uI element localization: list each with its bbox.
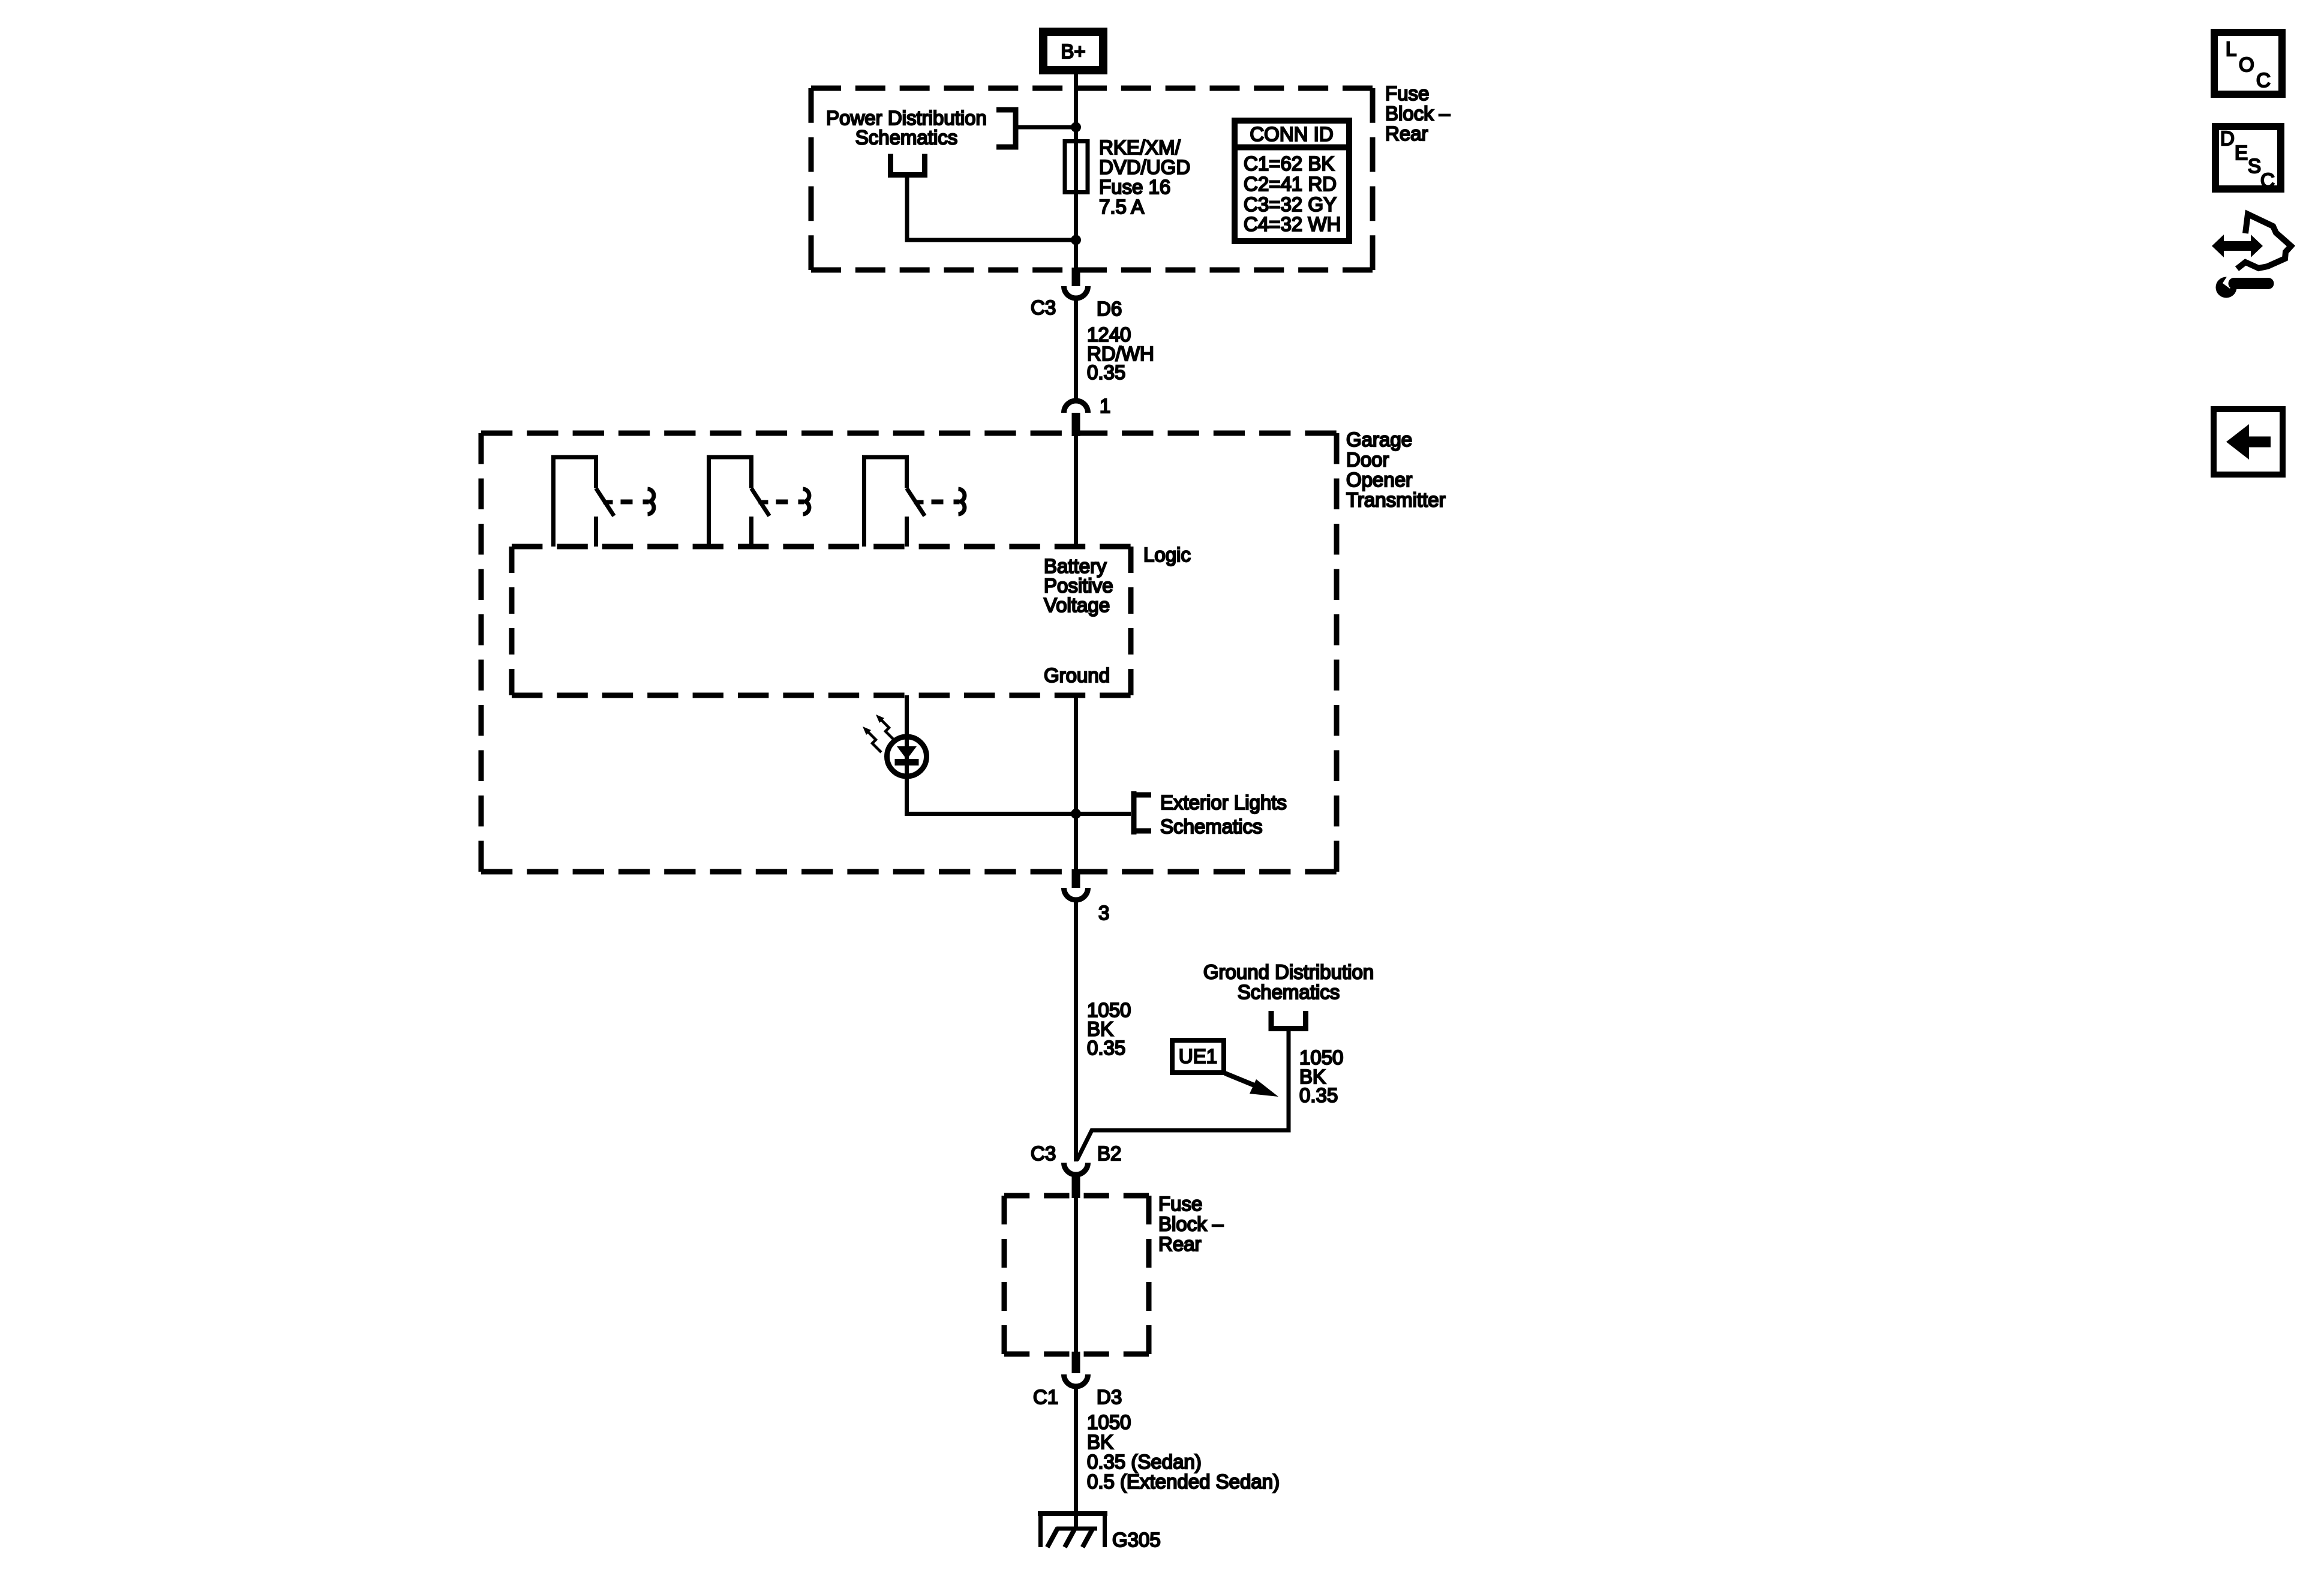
- svg-text:Rear: Rear: [1158, 1233, 1202, 1255]
- svg-text:Schematics: Schematics: [855, 127, 958, 149]
- connector table CONN ID: [1232, 121, 1352, 241]
- svg-text:D6: D6: [1097, 298, 1122, 320]
- junction LED branch to main: [1071, 809, 1081, 819]
- svg-text:Voltage: Voltage: [1044, 594, 1110, 616]
- svg-text:Opener: Opener: [1346, 469, 1412, 491]
- svg-text:0.35 (Sedan): 0.35 (Sedan): [1087, 1451, 1202, 1473]
- svg-text:3: 3: [1098, 902, 1109, 924]
- wire pin1 to logic box: [1074, 436, 1078, 544]
- svg-text:RKE/XM/: RKE/XM/: [1099, 136, 1181, 158]
- svg-text:C3=32 GY: C3=32 GY: [1244, 193, 1337, 215]
- svg-text:G305: G305: [1112, 1529, 1161, 1551]
- svg-text:Battery: Battery: [1044, 555, 1107, 577]
- junction: [1071, 122, 1081, 133]
- svg-text:Schematics: Schematics: [1238, 981, 1340, 1003]
- svg-text:E: E: [2235, 142, 2248, 164]
- svg-text:Schematics: Schematics: [1160, 815, 1263, 837]
- svg-text:C1: C1: [1033, 1386, 1058, 1408]
- connector pin 3: [1064, 869, 1110, 924]
- svg-text:Block –: Block –: [1385, 103, 1451, 125]
- icon DESC: [2215, 127, 2281, 191]
- svg-text:Fuse: Fuse: [1385, 82, 1429, 104]
- wire 1240 RD/WH 0.35: [1074, 299, 1078, 400]
- svg-text:S: S: [2248, 155, 2261, 177]
- svg-text:C: C: [2260, 169, 2275, 191]
- svg-text:CONN ID: CONN ID: [1250, 123, 1333, 145]
- fuse block rear (top) dashed box: [811, 88, 1373, 270]
- off-page tab: power distribution: [996, 110, 1016, 147]
- svg-text:Fuse 16: Fuse 16: [1099, 176, 1170, 198]
- svg-text:B+: B+: [1061, 40, 1085, 62]
- svg-text:1050: 1050: [1087, 1411, 1131, 1433]
- switch S3: [862, 455, 965, 547]
- label Garage Door Opener Transmitter: [1346, 428, 1446, 511]
- svg-text:Fuse: Fuse: [1158, 1193, 1202, 1215]
- LED emission arrows: [868, 720, 894, 752]
- connector pin 1: [1064, 395, 1111, 436]
- svg-text:Transmitter: Transmitter: [1346, 489, 1446, 511]
- svg-text:Positive: Positive: [1044, 575, 1113, 597]
- svg-text:O: O: [2239, 53, 2254, 76]
- wire U-tab down and right to main: [907, 176, 1076, 240]
- LED: [887, 737, 927, 776]
- svg-text:0.5 (Extended Sedan): 0.5 (Extended Sedan): [1087, 1470, 1280, 1493]
- svg-text:DVD/UGD: DVD/UGD: [1099, 156, 1190, 178]
- label Fuse Block Rear (top): [1385, 82, 1451, 145]
- LED branch wire: [907, 695, 1131, 814]
- svg-text:B2: B2: [1097, 1142, 1121, 1164]
- svg-text:Block –: Block –: [1158, 1213, 1224, 1235]
- off-page tab Ground Distribution (U): [1271, 1011, 1306, 1029]
- switch S1: [551, 455, 654, 547]
- wire ground distribution branch: [1077, 1030, 1289, 1160]
- icon back arrow: [2214, 409, 2283, 475]
- svg-text:C: C: [2256, 69, 2271, 91]
- garage door opener transmitter dashed box: [481, 433, 1337, 872]
- junction: [1071, 235, 1081, 245]
- svg-text:D3: D3: [1097, 1386, 1122, 1408]
- wire ground pin of logic box down: [1074, 695, 1078, 872]
- svg-text:1: 1: [1100, 395, 1110, 417]
- logic inner dashed box: [512, 547, 1131, 695]
- svg-text:0.35: 0.35: [1087, 1037, 1125, 1059]
- off-page tab (U) below Schematics: [891, 154, 925, 175]
- wire tab to main: [1016, 125, 1076, 130]
- icon schematic navigation (double arrow, outline, wrench): [2212, 214, 2291, 298]
- svg-text:BK: BK: [1087, 1431, 1113, 1453]
- svg-text:7.5 A: 7.5 A: [1099, 196, 1144, 218]
- label Ground Distribution Schematics: [1203, 961, 1374, 1004]
- wire 1050 BK 0.35: [1074, 901, 1078, 1161]
- connector C3 pin B2: [1031, 1142, 1121, 1198]
- wire through lower fuse box: [1074, 1198, 1078, 1354]
- label Battery Positive Voltage: [1044, 555, 1113, 616]
- connector C1 pin D3: [1033, 1352, 1122, 1408]
- off-page tab Exterior Lights: [1134, 791, 1151, 834]
- icon LOC: [2214, 32, 2282, 94]
- svg-text:0.35: 0.35: [1299, 1084, 1338, 1106]
- svg-text:L: L: [2226, 38, 2236, 60]
- callout UE1: [1172, 1040, 1278, 1097]
- svg-text:Ground Distribution: Ground Distribution: [1203, 961, 1374, 983]
- svg-text:C4=32 WH: C4=32 WH: [1244, 213, 1341, 235]
- svg-text:Garage: Garage: [1346, 428, 1412, 451]
- svg-text:Rear: Rear: [1385, 122, 1428, 145]
- switch S2: [707, 455, 809, 547]
- svg-text:Ground: Ground: [1044, 664, 1110, 686]
- svg-text:Door: Door: [1346, 449, 1389, 471]
- label Fuse Block Rear (lower): [1158, 1193, 1224, 1255]
- power node B+: [1043, 32, 1103, 70]
- label Power Distribution Schematics: [826, 107, 987, 149]
- svg-text:C2=41 RD: C2=41 RD: [1244, 173, 1337, 195]
- svg-text:Logic: Logic: [1143, 544, 1191, 566]
- svg-text:C3: C3: [1031, 296, 1056, 319]
- svg-text:C1=62 BK: C1=62 BK: [1244, 152, 1334, 175]
- fuse RKE/XM/DVD/UGD Fuse 16 7.5A: [1065, 142, 1088, 193]
- wire B+ to fuse block: [1074, 74, 1078, 91]
- ground G305: [1038, 1514, 1107, 1547]
- svg-text:UE1: UE1: [1179, 1045, 1217, 1067]
- svg-text:Power Distribution: Power Distribution: [826, 107, 987, 129]
- svg-text:Exterior Lights: Exterior Lights: [1160, 791, 1287, 813]
- svg-text:C3: C3: [1031, 1142, 1056, 1164]
- label 1050 BK 0.35 (branch): [1299, 1046, 1343, 1106]
- svg-text:D: D: [2220, 127, 2235, 149]
- connector C3 pin D6: [1031, 268, 1122, 320]
- wire main through fuse box: [1074, 91, 1078, 270]
- fuse block rear (lower) dashed box: [1004, 1196, 1149, 1354]
- wire 1050 BK 0.35/0.5: [1074, 1388, 1078, 1529]
- svg-text:0.35: 0.35: [1087, 361, 1125, 383]
